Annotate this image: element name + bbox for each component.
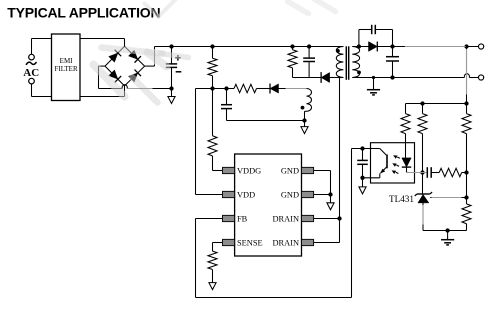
svg-text:FB: FB	[237, 214, 248, 223]
svg-text:VDDG: VDDG	[237, 166, 261, 175]
svg-text:SENSE: SENSE	[237, 238, 263, 247]
svg-text:DRAIN: DRAIN	[272, 238, 299, 247]
svg-text:VDD: VDD	[237, 190, 255, 199]
svg-text:DRAIN: DRAIN	[272, 214, 299, 223]
svg-text:GND: GND	[281, 166, 299, 175]
svg-text:FILTER: FILTER	[55, 65, 78, 73]
svg-text:TL431: TL431	[389, 194, 414, 204]
svg-text:GND: GND	[281, 190, 299, 199]
svg-text:AC: AC	[23, 67, 39, 79]
svg-text:TYPICAL APPLICATION: TYPICAL APPLICATION	[7, 5, 160, 21]
